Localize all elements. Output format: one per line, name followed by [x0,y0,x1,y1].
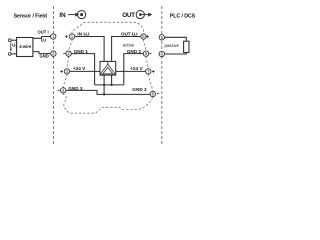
module outline bottom (dashed) [63,93,153,113]
svg-text:PLC / DCS: PLC / DCS [170,13,196,19]
terminal 5 [141,34,146,39]
svg-text:GND 3: GND 3 [68,86,83,91]
terminal 2 [66,51,71,56]
wire IN signal: terminal 1 to converter top-left pin [75,37,105,62]
polarity - terminal 4 [58,89,60,91]
wire sensor bottom stub [11,53,16,55]
svg-text:OUT I: OUT I [38,30,49,35]
polarity - terminal 6 [149,53,151,55]
converter chevron symbol [102,66,114,74]
converter inner bottom bar [100,73,116,75]
polarity + terminal 5 [146,35,149,38]
wire sensor OUT to terminal 1 [33,37,51,39]
svg-text:U,I: U,I [41,38,46,43]
polarity + terminal 3 [60,70,63,73]
svg-text:+24 V: +24 V [73,66,86,71]
junction dot GND3 [103,93,105,95]
svg-text:GND 2: GND 2 [127,49,142,54]
svg-text:passive: passive [165,43,180,48]
terminal 7 [146,69,151,74]
wire GND 3 [66,90,150,94]
junction dot bus right [110,84,112,86]
svg-text:active: active [123,43,135,48]
svg-text:S: S [15,45,17,49]
field terminal 6 [159,51,164,56]
svg-text:4-wire: 4-wire [19,44,32,49]
terminal 3 [64,69,69,74]
sensor terminal circle bottom [8,53,11,56]
polarity + terminal 7 [152,70,155,73]
converter U1 box [100,61,116,75]
terminal 1 [69,34,74,39]
module outline right edge (dashed) [144,39,153,91]
converter inner top lead [107,61,109,65]
svg-text:OUT U,I: OUT U,I [121,31,138,36]
svg-text:OUT: OUT [122,12,135,19]
terminal 6 [143,51,148,56]
terminal 8 [150,91,155,96]
wire converter bottom-right pin to bus [111,75,113,85]
svg-text:+24 V: +24 V [130,66,143,71]
terminal 4 [61,88,66,93]
polarity - terminal 8 [157,92,159,94]
svg-text:IN: IN [59,12,66,19]
svg-text:IN U,I: IN U,I [77,31,89,36]
svg-text:GND 1: GND 1 [74,49,89,54]
junction dot bus left [103,84,105,86]
OUT port icon [136,11,152,19]
separator line Sensor/Field boundary [53,6,55,146]
polarity + terminal 1 [65,35,68,38]
svg-text:GND: GND [40,53,49,58]
wire GND 2 [124,54,144,85]
wire +24V right [116,70,146,72]
wire sensor top stub [11,39,16,41]
field terminal 2 [51,51,56,56]
voltage source Us arrow [10,43,12,50]
wire passive loop [164,37,186,54]
separator line PLC/DCS boundary [161,6,163,146]
field terminal 5 [159,35,164,40]
wire ground bus under converter [95,84,124,86]
wire +24V left [70,70,101,72]
wire GND 1 [71,54,94,85]
svg-text:GND 3: GND 3 [132,87,147,92]
sensor 4-wire transmitter box [17,38,33,57]
polarity - terminal 2 [63,53,65,55]
wire OUT signal: converter top-right pin to terminal 5 [112,37,141,62]
sensor terminal circle top [8,39,11,42]
module outline top (dashed) [72,22,144,34]
wire converter bottom-left pin to bus and GND3 [103,75,105,94]
module outline left edge (dashed) [63,39,72,88]
field terminal 1 [51,34,56,39]
svg-text:Sensor / Field: Sensor / Field [14,13,47,19]
IN port icon [68,11,86,19]
resistor load (PLC input) [184,41,189,52]
wire sensor GND to terminal 2 [33,52,51,54]
